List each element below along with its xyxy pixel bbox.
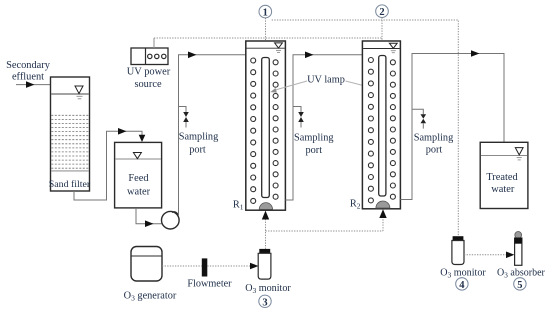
- UV lamp U2 in R2: [379, 56, 386, 197]
- node 2: [376, 5, 389, 18]
- wire node2 to R2 lamp dashed: [381, 18, 383, 56]
- R1 bubbles right: [273, 60, 278, 199]
- arrow feed to pump: [145, 220, 154, 227]
- svg-text:UV lamp: UV lamp: [307, 75, 345, 86]
- sampling port 3 valve: [421, 114, 427, 123]
- wire O3 generator to flowmeter dashed: [162, 265, 202, 267]
- sand filter level triangle: [75, 86, 83, 94]
- svg-text:Sampling: Sampling: [414, 133, 453, 144]
- treated tank level marks: [517, 157, 522, 159]
- label Secondary effluent: [6, 60, 51, 83]
- reactor R2: [362, 41, 400, 209]
- wire node1 bus to O3 monitor 4 dashed: [272, 20, 459, 236]
- svg-text:UV power: UV power: [127, 67, 171, 78]
- UV lamp U1 in R1: [262, 58, 270, 198]
- node 4: [456, 278, 468, 291]
- arrow into R2: [305, 52, 314, 59]
- svg-text:port: port: [306, 145, 323, 156]
- label Sampling port 2: [294, 133, 333, 157]
- R1 bubbles left: [251, 58, 256, 203]
- svg-text:port: port: [426, 145, 443, 156]
- R1 diffuser: [259, 203, 272, 210]
- sand filter water level line: [51, 93, 89, 95]
- O3 monitor 4: [453, 236, 464, 240]
- R2 diffuser: [376, 201, 390, 208]
- svg-text:O3 monitor: O3 monitor: [245, 283, 291, 295]
- sampling port 2 stub: [293, 107, 301, 113]
- wire flowmeter to O3 monitor dashed: [207, 265, 253, 267]
- R1 level triangle: [275, 43, 283, 48]
- reactor R1: [246, 41, 286, 210]
- svg-text:Feed: Feed: [128, 173, 149, 184]
- feed tank water line: [115, 158, 161, 160]
- R2 level marks: [391, 50, 396, 52]
- wire O3 monitor to diffusers dashed: [265, 218, 267, 249]
- R2 headspace line: [363, 48, 400, 50]
- svg-text:Sand filter: Sand filter: [49, 179, 91, 190]
- wire inlet to sand filter: [16, 84, 51, 86]
- svg-text:5: 5: [517, 280, 522, 291]
- node 1: [259, 5, 272, 18]
- svg-text:Sampling: Sampling: [294, 133, 333, 144]
- R1 headspace line: [247, 47, 285, 49]
- arrow into R1: [188, 52, 197, 59]
- arrow into feed tank top: [139, 135, 146, 142]
- arrow O3 into R2: [379, 209, 386, 218]
- R1 level marks: [276, 49, 281, 51]
- arrow into O3 monitor 3: [250, 263, 258, 270]
- svg-text:Sampling: Sampling: [179, 132, 218, 143]
- label Sampling port 3: [414, 133, 453, 156]
- wire sand filter to feed water tank: [74, 131, 142, 200]
- svg-text:1: 1: [263, 8, 268, 19]
- label UV power source: [127, 67, 171, 91]
- O3 monitor 3: [259, 249, 270, 253]
- label Treated water: [486, 172, 518, 195]
- R2 bubbles right: [390, 60, 395, 199]
- sampling port 1 stub: [179, 107, 187, 113]
- svg-text:source: source: [134, 79, 162, 90]
- R2 bubbles left: [368, 58, 373, 203]
- svg-text:Flowmeter: Flowmeter: [187, 279, 232, 290]
- wire O3 monitor4 to absorber dashed: [464, 254, 508, 256]
- pump: [162, 211, 180, 229]
- wire feed tank to pump: [136, 208, 162, 224]
- sampling port 2 valve: [298, 112, 304, 122]
- svg-text:3: 3: [262, 297, 267, 308]
- label Feed water: [127, 173, 151, 198]
- sand filter tank: [51, 77, 90, 191]
- node 3: [259, 295, 271, 308]
- UV power source box: [131, 48, 168, 65]
- sand filter level marks: [77, 95, 83, 97]
- sampling port 1 valve: [183, 112, 189, 122]
- wire node1 to R1 lamp dashed: [265, 18, 267, 58]
- svg-text:port: port: [189, 144, 206, 155]
- arrow O3 into R1: [262, 211, 269, 220]
- feed tank level triangle: [133, 153, 141, 159]
- wire UV power dashed bus: [154, 37, 382, 39]
- flowmeter F1: [202, 258, 208, 276]
- leader to R1 lamp: [274, 81, 308, 91]
- O3 absorber: [515, 232, 522, 239]
- O3 generator: [131, 247, 162, 282]
- arrow into sand filter: [26, 81, 35, 88]
- svg-text:2: 2: [379, 7, 384, 18]
- arrow on R2 outlet: [471, 50, 480, 57]
- arrow into O3 absorber: [506, 252, 514, 259]
- leader to R2 lamp: [346, 81, 372, 88]
- svg-text:effluent: effluent: [12, 72, 44, 83]
- svg-text:Treated: Treated: [486, 172, 518, 183]
- treated water tank: [480, 142, 528, 208]
- svg-text:water: water: [491, 184, 515, 195]
- sand filter media bottom line: [51, 170, 89, 172]
- feed water tank: [115, 142, 162, 208]
- svg-text:Secondary: Secondary: [6, 60, 51, 71]
- treated tank level triangle: [515, 148, 523, 155]
- sampling port 3 stub: [412, 109, 423, 114]
- label Sampling port 1: [179, 132, 218, 156]
- sand filter media dashed lines: [51, 115, 88, 168]
- R2 level triangle: [389, 43, 397, 48]
- wire pump riser to R1: [179, 55, 246, 216]
- arrow to feed tank horizontal: [118, 128, 127, 135]
- wire UV power source stem: [153, 38, 155, 48]
- node 5: [514, 278, 526, 291]
- wire R1 to R2 transfer: [285, 55, 362, 200]
- svg-text:water: water: [127, 187, 151, 198]
- treated tank water line: [481, 155, 527, 157]
- svg-text:4: 4: [459, 280, 465, 291]
- wire R2 to treated water tank: [400, 54, 504, 200]
